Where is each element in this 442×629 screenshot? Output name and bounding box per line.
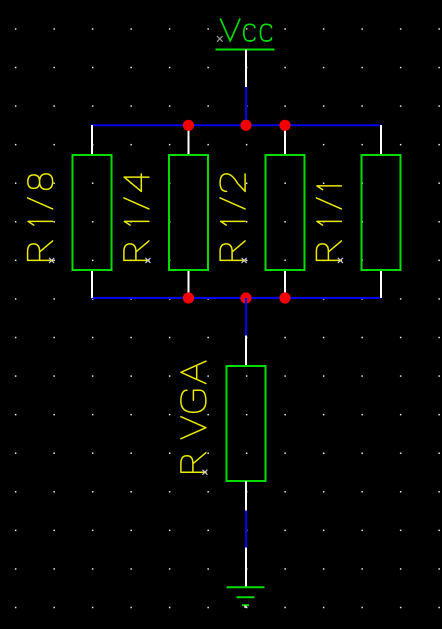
wire bottom bus horizontal	[91, 297, 381, 299]
origin cross of label R 1/1	[338, 258, 343, 263]
Vcc symbol bar	[216, 49, 275, 51]
power symbol Vcc	[221, 19, 272, 41]
junction dot at (188.5,298)	[183, 292, 194, 303]
label R VGA	[181, 361, 206, 472]
junction dot at (285,298)	[279, 292, 290, 303]
resistor R 1/4 body	[169, 155, 208, 270]
pin wire from Vcc symbol	[245, 50, 247, 88]
label R 1/4	[124, 174, 149, 261]
wire top bus horizontal	[91, 124, 381, 126]
pin wire bottom of resistor R 1/4	[188, 270, 190, 298]
pin wire top of resistor R 1/8	[91, 125, 93, 155]
label R 1/1	[316, 186, 341, 261]
origin cross of label R VGA	[202, 470, 207, 475]
pin wire top of resistor R VGA	[245, 336, 247, 367]
ground origin dot	[244, 606, 246, 608]
label R 1/2	[220, 174, 245, 261]
origin cross of label R 1/2	[242, 258, 247, 263]
resistor R 1/2 body	[266, 155, 305, 270]
Vcc origin cross	[217, 36, 223, 42]
resistor R 1/1 body	[362, 155, 401, 270]
junction dot at (285,125)	[279, 120, 290, 131]
pin wire bottom of resistor R 1/8	[91, 270, 93, 298]
pin wire top of resistor R 1/4	[188, 125, 190, 155]
resistor R VGA body	[227, 366, 266, 481]
origin cross of label R 1/4	[145, 258, 150, 263]
pin wire top of resistor R 1/2	[284, 125, 286, 155]
junction dot at (246,298)	[240, 292, 251, 303]
resistor R 1/8 body	[73, 155, 112, 270]
ground symbol	[227, 587, 265, 605]
pin wire top of resistor R 1/1	[380, 125, 382, 155]
pin wire bottom of resistor R 1/2	[284, 270, 286, 298]
junction dot at (246,125)	[240, 120, 251, 131]
wire net from bottom bus to R VGA	[245, 298, 247, 336]
origin cross of label R 1/8	[49, 258, 54, 263]
wire Vcc net vertical	[245, 87, 247, 126]
pin wire of ground symbol	[245, 548, 247, 588]
pin wire bottom of resistor R 1/1	[380, 270, 382, 298]
wire net from R VGA to ground	[245, 511, 247, 548]
label R 1/8	[28, 174, 53, 261]
pin wire bottom of resistor R VGA	[245, 481, 247, 511]
junction dot at (188.5,125)	[183, 120, 194, 131]
